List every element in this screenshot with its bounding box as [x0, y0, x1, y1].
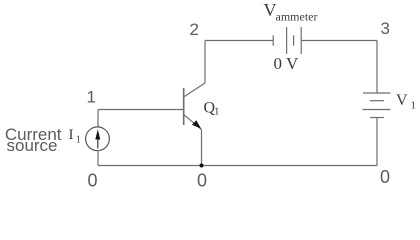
battery V1 — [363, 93, 391, 118]
junction dot — [200, 164, 204, 168]
svg-text:0 V: 0 V — [274, 54, 299, 73]
svg-text:3: 3 — [381, 19, 390, 38]
svg-text:2: 2 — [190, 20, 199, 39]
wire V_ammeter to node3 — [301, 40, 377, 42]
svg-text:1: 1 — [76, 135, 81, 146]
svg-text:1: 1 — [87, 88, 96, 107]
wire bottom rail — [98, 165, 377, 167]
svg-text:0: 0 — [197, 171, 207, 191]
svg-text:source: source — [6, 136, 57, 155]
svg-text:1: 1 — [214, 106, 220, 118]
battery V_ammeter — [273, 27, 301, 54]
wire emitter vertical — [201, 130, 203, 166]
svg-text:V: V — [396, 92, 408, 109]
svg-text:ammeter: ammeter — [276, 10, 318, 24]
wire collector vertical — [204, 41, 206, 84]
current source I1 — [86, 127, 110, 151]
wire current source bottom — [97, 151, 99, 165]
wire V1 bottom down — [376, 118, 378, 166]
wire node3 down to V1 — [376, 41, 378, 94]
svg-text:I: I — [69, 127, 74, 143]
wire base — [98, 109, 184, 111]
wire top-left (node2 to V_ammeter) — [205, 40, 273, 42]
svg-text:1: 1 — [411, 100, 417, 112]
svg-text:0: 0 — [88, 171, 98, 191]
svg-text:0: 0 — [380, 167, 390, 187]
wire current source top — [97, 110, 99, 128]
transistor Q1 — [184, 83, 205, 130]
